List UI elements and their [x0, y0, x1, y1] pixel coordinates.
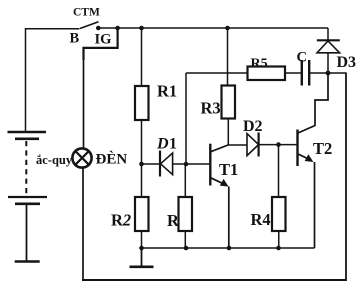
resistor R5 (horizontal) — [248, 67, 286, 81]
node: rail dot at R4 — [276, 246, 281, 251]
transistor T1 emitter — [211, 178, 225, 185]
svg-text:R1: R1 — [157, 82, 177, 101]
transistor T1 base bar — [209, 144, 211, 186]
wire: D3/C node to right side — [328, 72, 346, 74]
wire: T1 emitter down to rail — [228, 187, 230, 249]
node: IG contact dot — [96, 26, 101, 31]
wire: IG drop to lamp (thick L) — [84, 28, 118, 60]
wire: R4 branch — [278, 145, 280, 197]
svg-text:R: R — [167, 211, 180, 230]
svg-text:D3: D3 — [337, 54, 357, 71]
diode D2 (pointing right, cathode bar right) — [247, 134, 259, 156]
svg-text:D2: D2 — [243, 118, 263, 135]
wire: R2 branch — [141, 164, 143, 197]
resistor R4 — [272, 197, 286, 231]
wire: lamp bottom down to bottom rail — [82, 168, 84, 280]
transistor T2 base bar — [296, 130, 298, 167]
wire: T2 emitter down to rail end — [314, 162, 316, 248]
battery cell 1 short plate — [15, 138, 39, 141]
svg-text:T1: T1 — [219, 160, 238, 179]
wire: battery bottom lead — [26, 204, 28, 261]
wire: top rail from IG contact to top-right corner — [98, 27, 328, 29]
node: junction dot D1/R/T1 base — [184, 162, 189, 167]
node: junction dot top wire at R1 — [139, 26, 144, 31]
resistor R3 — [222, 86, 236, 119]
svg-text:1: 1 — [169, 135, 177, 152]
wire: R3 branch from top rail — [227, 28, 229, 86]
wire: base line to T1 — [186, 163, 210, 165]
wire: R1 bottom to D1 node — [141, 120, 143, 164]
node: junction dot top wire at R3 — [225, 26, 230, 31]
wire: R branch top — [184, 164, 186, 197]
diode D3 (vertical, pointing up, cathode bar top) — [327, 28, 329, 40]
battery dashed link — [25, 141, 27, 195]
transistor T2 emitter arrowhead — [305, 154, 314, 162]
resistor R — [179, 197, 193, 231]
wire: T2 collector jog up to D3/C node — [315, 73, 328, 126]
svg-text:R3: R3 — [201, 99, 221, 118]
node: junction dot top wire at lamp drop — [115, 26, 120, 31]
node: junction dot C/D3/T2 collector — [326, 71, 331, 76]
node: junction dot R1/R2/D1 — [139, 162, 144, 167]
svg-text:ĐÈN: ĐÈN — [96, 151, 128, 168]
resistor R1 — [135, 86, 149, 120]
wire: R2 bottom to ground rail — [141, 231, 143, 248]
battery cell 1 long plate — [8, 131, 47, 133]
svg-text:ắc-quy: ắc-quy — [36, 153, 73, 167]
svg-text:IG: IG — [95, 31, 112, 47]
node: rail dot at R2 — [139, 246, 144, 251]
transistor T1 emitter arrowhead — [220, 179, 229, 187]
svg-text:R5: R5 — [251, 57, 268, 72]
lamp ĐÈN (circle with X) — [72, 148, 91, 167]
svg-text:CTM: CTM — [73, 6, 100, 18]
wire: R1 branch top — [141, 28, 143, 86]
node: rail dot at T1 emitter — [227, 246, 232, 251]
capacitor C plates — [301, 60, 303, 86]
wire: T1 collector node to D2 — [228, 144, 247, 146]
wire: ground rail — [142, 247, 315, 249]
battery ground bar — [15, 260, 40, 263]
wire: base network corner to R5 (crosses R3 branch) — [186, 72, 248, 74]
transistor T2 emitter — [299, 154, 310, 159]
transistor T1 collector — [211, 145, 229, 152]
wire: D2 to T2 base — [259, 144, 297, 146]
node: junction dot D2/R4/T2 base — [276, 142, 281, 147]
transistor T2 collector — [298, 126, 315, 134]
wire: lamp column upper — [83, 59, 85, 148]
switch CTM blade (open, from B up-right over IG) — [80, 22, 99, 29]
wire: R5 to capacitor C — [285, 72, 301, 74]
svg-text:R2: R2 — [111, 211, 131, 230]
wire: bottom rail — [82, 279, 346, 281]
svg-text:C: C — [297, 50, 307, 66]
ground symbol — [141, 248, 143, 266]
wire: C to D3 node — [309, 72, 328, 74]
svg-text:T2: T2 — [313, 139, 332, 158]
diode D1 (pointing left, cathode bar left) — [142, 163, 161, 165]
wire: corner vertical down to D1 node — [185, 73, 187, 164]
battery cell 2 long plate — [8, 196, 47, 198]
wire: R4 bottom to rail — [278, 231, 280, 248]
svg-text:D: D — [156, 135, 169, 152]
wire: R3 bottom to T1 collector node — [227, 119, 229, 146]
svg-text:R4: R4 — [251, 210, 271, 229]
resistor R2 — [135, 197, 149, 231]
wire: right side vertical — [345, 73, 347, 282]
wire: battery top to switch B contact (top-left corner) — [26, 29, 80, 132]
svg-text:B: B — [70, 31, 80, 47]
battery cell 2 short plate — [15, 203, 40, 206]
node: rail dot at R — [184, 246, 189, 251]
wire: R bottom to rail — [184, 231, 186, 248]
